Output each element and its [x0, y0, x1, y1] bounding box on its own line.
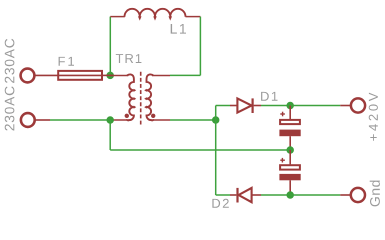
primary top pin: [110, 75, 128, 77]
primary winding: [127, 74, 134, 120]
label 230AC (lower): [5, 86, 15, 130]
core: [140, 72, 142, 125]
label +420V: [369, 93, 378, 141]
port +420V: [351, 98, 365, 112]
wire tap to capacitor midpoint: [110, 149, 290, 151]
junction node capacitor midpoint: [286, 146, 294, 154]
junction node secondary/diodes: [212, 116, 220, 124]
wire to D1 anode: [216, 105, 230, 107]
junction node P2/primary/doubler tap: [106, 116, 114, 124]
junction node D1/C1/+420V: [286, 102, 294, 110]
label 230AC (upper): [5, 39, 15, 83]
transformer TR1: [110, 72, 170, 125]
secondary winding: [146, 74, 153, 120]
wire D2 to C2 junction: [261, 194, 290, 196]
label L1: [171, 24, 186, 34]
fuse F1: [58, 71, 113, 80]
wire to +420V port: [290, 105, 340, 107]
secondary bottom pin: [152, 119, 170, 121]
wire junction up to L1: [109, 17, 111, 76]
wire secondary bottom to junction: [170, 119, 216, 121]
wire junction down: [109, 120, 111, 150]
junction node fuse/L1/TR1: [106, 72, 114, 80]
label TR1: [116, 54, 142, 63]
wire P2 to junction: [50, 119, 110, 121]
polarity dot secondary: [151, 114, 155, 118]
wire to Gnd port: [290, 194, 340, 196]
capacitor C2: [279, 150, 300, 195]
pin P2: [35, 119, 50, 121]
label D2: [212, 199, 228, 208]
diode D1: [230, 98, 261, 113]
primary bottom pin: [110, 119, 129, 121]
label Gnd: [370, 181, 380, 207]
inductor L1: [110, 9, 200, 21]
port Gnd: [351, 188, 365, 202]
diode D2: [230, 188, 261, 203]
pin +420V port: [340, 105, 351, 107]
capacitor C1: [279, 106, 300, 151]
junction node C2/D2/Gnd: [286, 191, 294, 199]
wire D1 to C1 junction: [261, 105, 290, 107]
secondary top pin: [152, 75, 170, 77]
pin Gnd port: [340, 194, 351, 196]
wire L1 right down: [199, 17, 201, 76]
wire D2 corner: [216, 194, 230, 196]
wire vertical D1-D2: [215, 106, 217, 196]
polarity dot primary: [125, 114, 129, 118]
pin P1 to fuse: [35, 74, 58, 76]
label D1: [261, 92, 277, 101]
wire down to TR1 secondary top: [170, 74, 200, 76]
port P2 (230AC bottom): [21, 113, 35, 127]
port P1 (230AC top): [21, 69, 35, 83]
label F1: [59, 57, 74, 66]
